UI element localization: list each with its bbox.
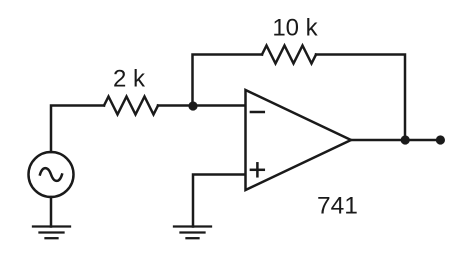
svg-text:2 k: 2 k	[113, 66, 146, 93]
wire op-amp output	[351, 139, 440, 142]
output node junction dot	[401, 135, 410, 144]
wire input top-left corner: source to 2k	[51, 106, 104, 153]
op-amp U1 triangle	[246, 90, 352, 190]
svg-text:10 k: 10 k	[272, 15, 318, 42]
op-amp non-inverting input label +	[251, 169, 264, 172]
output terminal dot	[436, 135, 445, 144]
wire node A up to feedback	[193, 55, 263, 106]
wire 10k to output node	[316, 55, 405, 141]
AC source sine symbol	[40, 168, 62, 181]
wire + input to ground	[193, 175, 246, 227]
ground (source)	[33, 227, 70, 239]
op-amp inverting input label -	[251, 111, 264, 114]
ground (op-amp + input)	[174, 227, 211, 239]
resistor R2 10 k zigzag	[262, 46, 316, 64]
resistor R1 2 k zigzag	[104, 97, 158, 115]
node A junction dot (inverting input)	[188, 101, 197, 110]
wire 2k to inverting node	[158, 104, 246, 107]
svg-text:741: 741	[317, 193, 358, 220]
wire source bottom to ground	[50, 197, 53, 227]
AC source V1 circle	[29, 152, 74, 197]
